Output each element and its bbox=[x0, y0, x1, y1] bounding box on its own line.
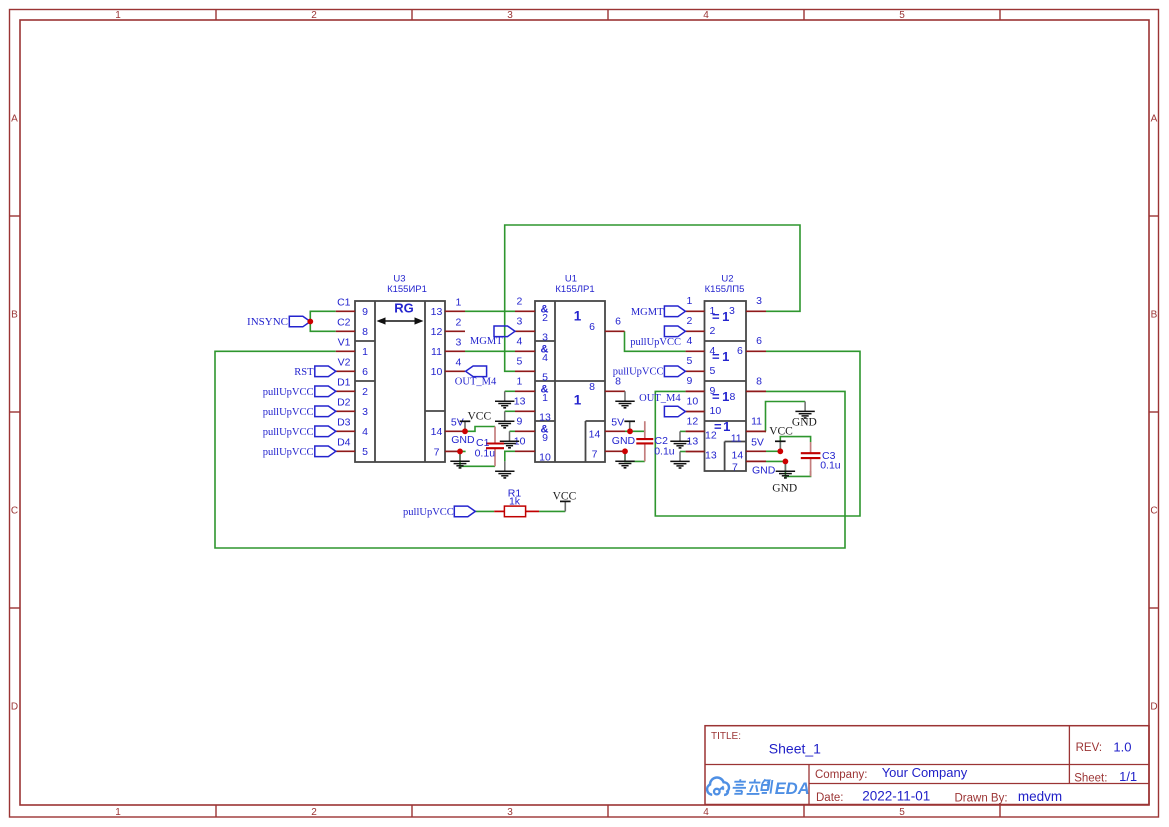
svg-text:A: A bbox=[1151, 114, 1158, 125]
svg-text:1: 1 bbox=[362, 346, 368, 358]
U1 pin 9 bbox=[515, 416, 548, 444]
U3 pin 5 (D4) bbox=[336, 437, 368, 459]
U2 pin 11 bbox=[731, 415, 766, 444]
U2 XOR labels =1 bbox=[712, 309, 732, 434]
GND net label at U2 pin7 ground bbox=[772, 482, 797, 494]
svg-text:2: 2 bbox=[542, 312, 548, 324]
U2 pin 4 bbox=[686, 335, 716, 357]
svg-text:TITLE:: TITLE: bbox=[711, 731, 741, 742]
svg-text:8: 8 bbox=[730, 391, 736, 403]
svg-text:5V: 5V bbox=[451, 416, 464, 428]
svg-text:pullUpVCC: pullUpVCC bbox=[263, 407, 314, 418]
U1 pin 2 bbox=[515, 296, 548, 324]
svg-text:11: 11 bbox=[751, 415, 762, 427]
svg-text:5: 5 bbox=[710, 365, 716, 377]
svg-text:4: 4 bbox=[703, 10, 709, 21]
wire U1 pin9 to ground bbox=[510, 430, 516, 432]
svg-text:RG: RG bbox=[394, 301, 414, 316]
junction U2 pin7 node bbox=[783, 459, 789, 465]
svg-text:VCC: VCC bbox=[468, 411, 492, 423]
U3 pin 10 (4) bbox=[431, 366, 465, 378]
svg-text:9: 9 bbox=[687, 375, 693, 387]
svg-text:1: 1 bbox=[710, 305, 716, 317]
U2 reference designator bbox=[705, 274, 745, 295]
svg-text:3: 3 bbox=[507, 807, 513, 818]
U2 pin 8 bbox=[730, 375, 767, 403]
net flag RST bbox=[294, 366, 336, 378]
svg-text:REV:: REV: bbox=[1076, 742, 1102, 754]
VCC net label at U2 bbox=[769, 426, 793, 438]
junction U2 pin14 node bbox=[777, 448, 783, 454]
svg-text:D3: D3 bbox=[337, 417, 351, 429]
svg-text:9: 9 bbox=[362, 306, 368, 318]
svg-text:3: 3 bbox=[542, 331, 548, 343]
svg-text:A: A bbox=[11, 114, 18, 125]
U2 pin 5 bbox=[686, 355, 716, 377]
svg-text:14: 14 bbox=[732, 449, 744, 461]
U3 pin 3 (D2) bbox=[336, 397, 368, 419]
svg-text:5V: 5V bbox=[751, 437, 764, 449]
svg-text:6: 6 bbox=[589, 321, 595, 333]
svg-text:4: 4 bbox=[456, 356, 462, 368]
U3 output pin names bbox=[456, 296, 462, 368]
svg-text:pullUpVCC: pullUpVCC bbox=[263, 447, 314, 458]
svg-text:MGMT: MGMT bbox=[470, 336, 503, 347]
wire net 3: U3 pin11 to U1 pin4 bbox=[465, 350, 515, 352]
U2 5V pin name bbox=[751, 437, 764, 449]
U2 pin 10 bbox=[686, 395, 722, 417]
svg-text:Your Company: Your Company bbox=[882, 765, 968, 780]
svg-text:C: C bbox=[1150, 506, 1157, 517]
svg-text:13: 13 bbox=[539, 411, 551, 423]
svg-text:INSYNC: INSYNC bbox=[247, 316, 288, 328]
svg-text:pullUpVCC: pullUpVCC bbox=[630, 337, 681, 348]
net flag OUT_M4 to U2 pin10 bbox=[639, 393, 685, 417]
svg-text:4: 4 bbox=[542, 352, 548, 364]
svg-text:2: 2 bbox=[710, 325, 716, 337]
wire R1 right to VCC bbox=[539, 510, 565, 512]
wire U3 pin7 to ground and C1 bbox=[460, 451, 495, 466]
title block texts bbox=[711, 731, 1137, 805]
U3 pin 13 (1) bbox=[431, 306, 465, 318]
wire net 1: U3 pin13 to U1 pin2 bbox=[465, 310, 515, 312]
svg-text:3: 3 bbox=[507, 10, 513, 21]
svg-text:3: 3 bbox=[517, 316, 523, 328]
svg-text:6: 6 bbox=[737, 345, 743, 357]
U2 pin 14 (5V) bbox=[732, 449, 767, 461]
ground U2 pin12 bbox=[670, 431, 689, 448]
svg-text:10: 10 bbox=[687, 395, 699, 407]
wire net 6: U1 pin6 to U2 pin4 bbox=[625, 331, 686, 351]
svg-text:11: 11 bbox=[731, 432, 742, 444]
U1 pin 7 (GND) bbox=[592, 448, 625, 460]
svg-text:3: 3 bbox=[729, 305, 735, 317]
U1 pin 3 bbox=[515, 316, 548, 344]
U3 pin 1 (V1) bbox=[336, 337, 368, 359]
svg-text:VCC: VCC bbox=[769, 426, 793, 438]
net flag pullUpVCC D4 bbox=[263, 446, 336, 458]
ground U2 pin11 bbox=[795, 402, 814, 419]
wire net INSYNC bracket to U3 C1/C2 bbox=[310, 311, 336, 331]
wire net top loop: U1 pin5 to U2 pin3 bbox=[505, 225, 800, 371]
ground U2 pin7 bbox=[776, 461, 795, 478]
svg-text:Date:: Date: bbox=[816, 792, 844, 804]
wire U2 pin14 to VCC and C3 bbox=[766, 437, 811, 452]
svg-text:8: 8 bbox=[756, 375, 762, 387]
resistor R1 1k bbox=[494, 487, 539, 516]
net flag pullUpVCC to U2 pin5 bbox=[613, 366, 686, 378]
svg-text:GND: GND bbox=[772, 482, 797, 494]
svg-text:GND: GND bbox=[612, 435, 636, 447]
svg-text:13: 13 bbox=[431, 306, 443, 318]
wire U1 pin10 to ground bbox=[505, 451, 515, 461]
svg-text:5V: 5V bbox=[611, 417, 624, 429]
U3 pin 9 (C1) bbox=[336, 297, 368, 319]
U1 pin 6 bbox=[589, 316, 624, 333]
svg-text:MGMT: MGMT bbox=[631, 307, 664, 318]
power symbol VCC U2 bbox=[775, 441, 786, 451]
svg-text:2: 2 bbox=[311, 807, 317, 818]
svg-text:6: 6 bbox=[756, 335, 762, 347]
svg-text:0.1u: 0.1u bbox=[475, 448, 496, 460]
svg-text:pullUpVCC: pullUpVCC bbox=[613, 367, 664, 378]
svg-text:3: 3 bbox=[456, 336, 462, 348]
op-amp U3 K155IR1 register body bbox=[355, 301, 445, 462]
U1 pin 8 bbox=[589, 376, 625, 393]
U1 OR gate labels bbox=[574, 309, 582, 408]
svg-text:5: 5 bbox=[542, 371, 548, 383]
junction U1 pin7 node bbox=[622, 448, 628, 454]
svg-text:pullUpVCC: pullUpVCC bbox=[403, 507, 454, 518]
U3 GND pin name bbox=[451, 434, 475, 446]
svg-text:RST: RST bbox=[294, 367, 314, 378]
svg-text:7: 7 bbox=[592, 448, 598, 460]
wire net 8 loop: U2 pin8 to U3 pin V1 bbox=[215, 351, 845, 548]
U1 pin 4 bbox=[515, 336, 548, 364]
svg-text:1: 1 bbox=[115, 807, 121, 818]
net flag pullUpVCC D3 bbox=[263, 426, 336, 438]
ground U1 pin1 bbox=[495, 391, 514, 408]
title block bbox=[705, 726, 1149, 805]
svg-text:9: 9 bbox=[542, 432, 548, 444]
svg-text:1/1: 1/1 bbox=[1119, 769, 1137, 784]
U3 pin 12 (2) bbox=[431, 326, 465, 338]
ground U1 pin7 bbox=[615, 451, 634, 468]
svg-text:14: 14 bbox=[431, 426, 443, 438]
ground U3 pin7 bbox=[450, 451, 469, 468]
U1 5V pin name bbox=[611, 417, 624, 429]
svg-text:9: 9 bbox=[517, 416, 523, 428]
svg-text:4: 4 bbox=[362, 426, 368, 438]
U3 reference designator bbox=[387, 274, 427, 295]
svg-text:8: 8 bbox=[589, 381, 595, 393]
svg-text:OUT_M4: OUT_M4 bbox=[639, 393, 681, 404]
U3 pin 11 (3) bbox=[431, 346, 465, 358]
U3 5V pin name bbox=[451, 416, 464, 428]
U1 pin 10 bbox=[514, 436, 551, 464]
svg-text:К155ИР1: К155ИР1 bbox=[387, 284, 427, 295]
svg-text:D2: D2 bbox=[337, 397, 351, 409]
svg-text:2: 2 bbox=[456, 316, 462, 328]
svg-text:5: 5 bbox=[899, 10, 905, 21]
wire U2 pin11 to ground bbox=[766, 402, 806, 432]
svg-text:6: 6 bbox=[615, 316, 621, 328]
svg-text:Drawn By:: Drawn By: bbox=[955, 793, 1008, 805]
GND net label at U2 pin11 ground bbox=[792, 416, 817, 428]
svg-text:VCC: VCC bbox=[553, 491, 577, 503]
svg-text:1: 1 bbox=[687, 295, 693, 307]
svg-text:EDA: EDA bbox=[775, 780, 810, 798]
svg-text:10: 10 bbox=[431, 366, 443, 378]
JLC EDA logo bbox=[707, 778, 729, 795]
frame column labels bbox=[115, 10, 905, 818]
svg-text:C2: C2 bbox=[337, 317, 351, 329]
ground U1 pin8 bbox=[615, 391, 634, 408]
svg-text:4: 4 bbox=[517, 336, 523, 348]
U3 pin 6 (V2) bbox=[336, 357, 368, 379]
svg-text:2: 2 bbox=[362, 386, 368, 398]
U3 pin 8 (C2) bbox=[336, 317, 368, 339]
svg-text:C: C bbox=[11, 506, 18, 517]
U1 AND gate labels bbox=[541, 303, 549, 435]
U2 pin 7 (GND) bbox=[732, 461, 766, 473]
U3 pin 14 (5V) bbox=[431, 426, 465, 438]
svg-text:7: 7 bbox=[434, 446, 440, 458]
power symbol VCC U3 bbox=[460, 421, 471, 431]
wire net U2 pin6 to U2 pin9 loop bbox=[655, 351, 860, 516]
wire U1 pin1 to ground bbox=[505, 390, 515, 392]
junction U3 pin7 node bbox=[457, 449, 463, 455]
ground U1 pin13 bbox=[495, 411, 514, 428]
wire U2 pin7 to ground and C3 bbox=[766, 461, 811, 476]
svg-text:V2: V2 bbox=[338, 357, 351, 369]
svg-text:GND: GND bbox=[792, 416, 817, 428]
net flag INSYNC bbox=[247, 316, 310, 328]
wire U2 pin13 ground stub bbox=[680, 451, 686, 453]
svg-text:1.0: 1.0 bbox=[1113, 739, 1131, 754]
capacitor C1 0.1u bbox=[475, 427, 504, 467]
svg-text:1: 1 bbox=[456, 296, 462, 308]
net flag OUT_M4 at U3 pin10 bbox=[455, 366, 497, 388]
U2 pin 1 bbox=[686, 295, 716, 317]
svg-text:12: 12 bbox=[431, 326, 443, 338]
svg-text:GND: GND bbox=[752, 465, 776, 477]
svg-text:D4: D4 bbox=[337, 437, 351, 449]
capacitor C3 0.1u bbox=[801, 442, 841, 476]
U2 GND pin name bbox=[752, 465, 776, 477]
op-amp U1 K155LR1 AOI gate body bbox=[535, 301, 605, 462]
wire U2 pin12 ground stub bbox=[680, 430, 686, 432]
power symbol VCC U1 bbox=[624, 421, 635, 431]
svg-text:6: 6 bbox=[362, 366, 368, 378]
U1 pin 14 (5V) bbox=[589, 428, 625, 440]
U1 pin 5 bbox=[515, 356, 548, 384]
svg-text:7: 7 bbox=[732, 462, 738, 474]
logo EDA text bbox=[775, 780, 810, 798]
capacitor C2 0.1u bbox=[636, 421, 674, 461]
U2 pin 13 bbox=[686, 435, 717, 461]
svg-text:5: 5 bbox=[899, 807, 905, 818]
svg-text:1: 1 bbox=[542, 392, 548, 404]
svg-text:1k: 1k bbox=[509, 496, 521, 508]
svg-text:0.1u: 0.1u bbox=[654, 445, 675, 457]
wire U1 pin14 to C2 bbox=[625, 430, 645, 432]
svg-text:B: B bbox=[1151, 310, 1158, 321]
ground U2 pin13 bbox=[670, 452, 689, 469]
svg-text:4: 4 bbox=[703, 807, 709, 818]
U3 bidirectional arrow bbox=[377, 317, 424, 324]
svg-text:D1: D1 bbox=[337, 377, 351, 389]
frame row labels bbox=[11, 114, 1158, 713]
svg-text:Sheet:: Sheet: bbox=[1074, 773, 1107, 785]
svg-text:13: 13 bbox=[514, 396, 526, 408]
U2 pin 12 bbox=[686, 415, 717, 441]
svg-text:12: 12 bbox=[705, 430, 717, 442]
net flag MGMT to U2 pin1 bbox=[631, 306, 686, 318]
ground U1 pin10 bbox=[495, 461, 514, 478]
svg-text:12: 12 bbox=[687, 415, 699, 427]
VCC net label at R1 bbox=[553, 491, 577, 503]
net flag pullUpVCC D1 bbox=[263, 386, 336, 398]
U2 pin 3 bbox=[729, 295, 766, 317]
svg-text:2: 2 bbox=[311, 10, 317, 21]
VCC net label at U3 bbox=[468, 411, 492, 423]
svg-text:8: 8 bbox=[362, 326, 368, 338]
junction INSYNC node bbox=[307, 319, 313, 325]
svg-text:OUT_M4: OUT_M4 bbox=[455, 377, 497, 388]
svg-text:4: 4 bbox=[710, 345, 716, 357]
wire U1 pin13 to ground bbox=[505, 410, 515, 412]
ground U1 pin9 bbox=[500, 431, 519, 448]
svg-text:D: D bbox=[1150, 702, 1157, 713]
net flag pullUpVCC D2 bbox=[263, 406, 336, 418]
wire U1 pin7 to ground and C2 bbox=[625, 451, 645, 461]
svg-text:5: 5 bbox=[362, 446, 368, 458]
U3 pin 7 (GND) bbox=[434, 446, 460, 458]
U2 pin 9 bbox=[686, 375, 716, 397]
U2 pin 6 bbox=[737, 335, 766, 357]
U3 pin 4 (D3) bbox=[336, 417, 368, 439]
svg-text:pullUpVCC: pullUpVCC bbox=[263, 427, 314, 438]
svg-text:2: 2 bbox=[517, 296, 523, 308]
svg-text:14: 14 bbox=[589, 428, 601, 440]
op-amp U2 K155LP5 XOR gate body bbox=[705, 301, 747, 471]
svg-text:5: 5 bbox=[687, 355, 693, 367]
svg-text:11: 11 bbox=[431, 346, 442, 358]
junction U3 pin14 node bbox=[462, 428, 468, 434]
svg-text:D: D bbox=[11, 702, 18, 713]
svg-text:B: B bbox=[11, 310, 18, 321]
U1 reference designator bbox=[555, 274, 594, 295]
U3 pin 2 (D1) bbox=[336, 377, 368, 399]
svg-text:1: 1 bbox=[115, 10, 121, 21]
svg-text:Sheet_1: Sheet_1 bbox=[769, 741, 821, 757]
svg-text:К155ЛП5: К155ЛП5 bbox=[705, 284, 745, 295]
net flag pullUpVCC to R1 bbox=[403, 506, 475, 518]
svg-text:9: 9 bbox=[710, 385, 716, 397]
junction U1 pin14 node bbox=[627, 428, 633, 434]
svg-text:10: 10 bbox=[710, 405, 722, 417]
svg-text:5: 5 bbox=[517, 356, 523, 368]
svg-text:C1: C1 bbox=[337, 297, 351, 309]
svg-text:2022-11-01: 2022-11-01 bbox=[862, 788, 930, 803]
svg-text:К155ЛР1: К155ЛР1 bbox=[555, 284, 594, 295]
wire U3 pin14 to VCC and C1 bbox=[465, 427, 495, 432]
svg-text:GND: GND bbox=[451, 434, 475, 446]
svg-text:4: 4 bbox=[687, 335, 693, 347]
svg-text:V1: V1 bbox=[338, 337, 351, 349]
svg-text:3: 3 bbox=[362, 406, 368, 418]
svg-text:1: 1 bbox=[574, 393, 582, 408]
svg-text:Company:: Company: bbox=[815, 769, 867, 781]
svg-text:2: 2 bbox=[687, 315, 693, 327]
U1 pin 13 bbox=[514, 396, 551, 424]
net flag MGMT to U1 pin3 bbox=[470, 326, 515, 347]
U1 GND pin name bbox=[612, 435, 636, 447]
U3 function label RG bbox=[394, 301, 414, 316]
svg-text:3: 3 bbox=[756, 295, 762, 307]
svg-text:1: 1 bbox=[574, 309, 582, 324]
wire R1 left to pullUpVCC flag bbox=[475, 510, 494, 512]
net flag pullUpVCC to U2 pin2 bbox=[630, 326, 685, 348]
power symbol VCC R1 bbox=[560, 501, 571, 511]
svg-text:medvm: medvm bbox=[1018, 789, 1062, 804]
svg-text:10: 10 bbox=[539, 451, 551, 463]
svg-text:13: 13 bbox=[705, 450, 717, 462]
svg-text:pullUpVCC: pullUpVCC bbox=[263, 387, 314, 398]
svg-text:1: 1 bbox=[517, 376, 523, 388]
U1 pin 1 bbox=[515, 376, 548, 404]
U2 pin 2 bbox=[686, 315, 716, 337]
svg-text:0.1u: 0.1u bbox=[820, 460, 841, 472]
